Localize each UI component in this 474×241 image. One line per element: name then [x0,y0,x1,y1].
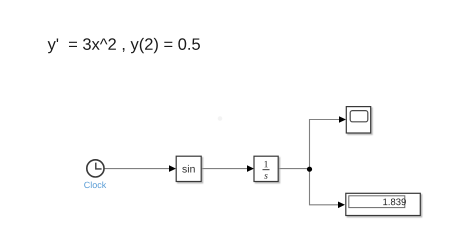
wire: junction up to scope [310,116,347,168]
clock label [84,181,106,188]
display block [346,193,421,215]
wire: junction down to display [310,169,346,209]
wire: clock to sin [105,165,177,172]
integrator block 1/s [254,156,278,181]
sin block [176,156,201,181]
annotation: equation text [48,38,200,53]
faint smudge artifact [218,116,223,121]
junction node [307,167,312,172]
wire: sin to integrator [202,165,255,172]
scope block [346,107,370,133]
clock block [87,160,104,177]
wire: integrator to junction [279,168,310,170]
